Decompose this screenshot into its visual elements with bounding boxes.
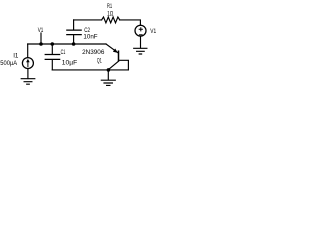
junction node C (C2 bottom) xyxy=(72,42,76,46)
wire R1 right lead to V1 source top xyxy=(120,20,141,25)
svg-text:1Ω: 1Ω xyxy=(107,10,113,17)
V1 minus sign xyxy=(139,34,142,36)
wire middle ground stub xyxy=(107,70,109,80)
resistor R1 xyxy=(102,17,120,23)
capacitor C2 bottom lead xyxy=(73,35,75,44)
V1 plus sign xyxy=(139,28,142,31)
node V1 horizontal rail wire xyxy=(28,43,106,45)
I1 arrow shaft xyxy=(27,62,29,67)
capacitor C1 bottom lead xyxy=(51,60,53,70)
wire top rail from C2 corner to R1 left lead xyxy=(74,19,102,21)
svg-text:R1: R1 xyxy=(107,3,112,10)
wire bottom from C1 to base loop xyxy=(52,69,128,71)
wire rail left corner down to I1 xyxy=(27,44,29,58)
svg-text:V1: V1 xyxy=(38,27,44,34)
svg-text:V1: V1 xyxy=(150,28,156,35)
ground middle xyxy=(101,80,115,85)
svg-text:I1: I1 xyxy=(13,53,19,60)
svg-text:10nF: 10nF xyxy=(83,34,97,41)
junction node A (V1 label stub) xyxy=(39,42,43,46)
Q1 emitter arrow head xyxy=(113,49,118,53)
capacitor C1 xyxy=(45,55,60,60)
svg-text:Q1: Q1 xyxy=(97,58,102,65)
ground left xyxy=(21,79,35,85)
ground right xyxy=(134,48,147,54)
svg-text:2N3906: 2N3906 xyxy=(82,49,105,56)
svg-text:10µF: 10µF xyxy=(62,59,77,66)
capacitor C2 top lead xyxy=(73,20,75,30)
current source I1 xyxy=(22,58,33,69)
junction node D (collector/ground) xyxy=(107,68,111,72)
I1 arrow head xyxy=(26,59,30,62)
capacitor C2 xyxy=(67,30,81,34)
voltage source V1 xyxy=(135,25,146,36)
svg-text:C1: C1 xyxy=(61,49,66,56)
transistor Q1 emitter wire xyxy=(106,44,118,53)
capacitor C1 top lead xyxy=(51,44,53,54)
transistor Q1 collector wire xyxy=(109,61,119,69)
junction node B (C1 top) xyxy=(51,42,55,46)
transistor Q1 base wire loop xyxy=(119,60,129,70)
transistor Q1 base bar xyxy=(118,51,120,61)
wire stub for V1 net label xyxy=(40,33,42,44)
wire I1 bottom to ground xyxy=(27,69,29,79)
wire V1 bottom to ground xyxy=(140,36,142,48)
svg-text:500µA: 500µA xyxy=(0,60,17,67)
